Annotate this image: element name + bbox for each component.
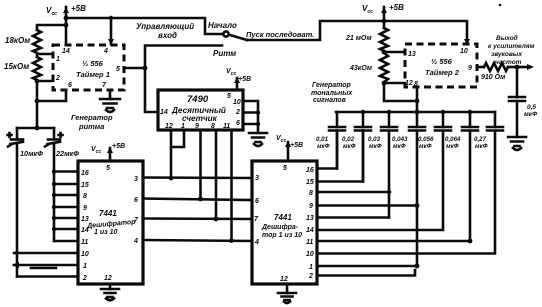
svg-text:8: 8 <box>83 193 87 200</box>
svg-text:10: 10 <box>81 251 89 258</box>
power symbol Vcc +5V (7490 supply) <box>226 68 251 90</box>
wire node E to pin 6 of timer 1 <box>37 90 66 101</box>
resistor R4 43 kOhm <box>349 53 388 82</box>
svg-text:1: 1 <box>56 56 60 63</box>
node output <box>515 65 520 70</box>
node dots on ground bus <box>256 110 260 114</box>
wire capacitor top rail <box>336 111 495 114</box>
IC U2 7490 decade counter <box>158 90 243 130</box>
svg-text:14: 14 <box>160 109 168 116</box>
svg-text:1 из 10: 1 из 10 <box>94 229 118 236</box>
svg-text:Генератор: Генератор <box>71 113 113 122</box>
node R3/R4 (discharge node) <box>382 50 387 55</box>
svg-text:Начало: Начало <box>208 21 237 30</box>
svg-text:11: 11 <box>306 239 313 246</box>
svg-text:мкФ: мкФ <box>343 143 356 150</box>
svg-text:7441: 7441 <box>99 209 117 218</box>
svg-text:4: 4 <box>133 238 138 245</box>
svg-text:6: 6 <box>255 198 259 205</box>
svg-text:18кОм: 18кОм <box>5 36 30 45</box>
wire C1 column corner to decoder output 2 <box>17 275 78 278</box>
svg-text:5: 5 <box>227 93 231 100</box>
capacitor C5 0.03uF <box>368 112 397 150</box>
wire timer 2 output pin 9 <box>477 66 484 69</box>
op-amp U1 1/2 556 Timer 1 (dashed block) <box>53 45 124 90</box>
svg-text:Пуск последоват.: Пуск последоват. <box>246 30 314 39</box>
node B (Vcc rail junction to resistor chain) <box>64 23 69 28</box>
svg-text:4: 4 <box>254 239 259 246</box>
svg-text:12: 12 <box>280 276 288 283</box>
node QD on bus D <box>229 238 234 243</box>
svg-text:Выход: Выход <box>496 34 518 42</box>
svg-text:8: 8 <box>211 123 215 130</box>
capacitor C7 0.056uF <box>418 112 451 150</box>
wire 7490 grounded pins 10,2,6 <box>243 101 258 133</box>
IC U3 7441 decoder 1-of-10 (left) <box>78 161 143 284</box>
svg-text:8: 8 <box>309 190 313 197</box>
capacitor C2 22uF electrolytic <box>45 128 79 158</box>
power symbol Vcc +5V (7441 no.2 supply) <box>276 135 303 161</box>
svg-text:13: 13 <box>81 216 89 223</box>
node QA on bus A <box>169 176 174 181</box>
wire decoder out 8 to capacitor C5 <box>317 191 389 194</box>
svg-text:7490: 7490 <box>187 94 209 105</box>
node on C8 column <box>468 239 473 244</box>
resistor R2 15 kOhm <box>4 57 41 80</box>
svg-text:2: 2 <box>235 109 240 116</box>
svg-text:Управляющий: Управляющий <box>136 22 194 31</box>
wire output arrow <box>517 66 530 69</box>
svg-text:Дешифра-: Дешифра- <box>261 224 299 231</box>
ground right of 7490 <box>249 133 267 146</box>
svg-text:+5В: +5В <box>290 142 303 149</box>
svg-text:2: 2 <box>55 75 60 82</box>
wire rhythm stub <box>145 46 222 69</box>
power symbol Vcc +5V (timer 2 supply) <box>362 3 404 28</box>
svg-text:9: 9 <box>309 203 313 210</box>
svg-text:3: 3 <box>255 175 259 182</box>
svg-text:+5В: +5В <box>389 3 404 12</box>
node threshold timer 2 <box>382 81 387 86</box>
svg-text:мкФ: мкФ <box>393 143 406 150</box>
svg-text:14: 14 <box>306 227 314 234</box>
svg-text:6: 6 <box>134 197 138 204</box>
wire QA pin 12 tie to input B pin 1 <box>171 130 184 147</box>
wire QD pin 11 down to bus D <box>230 130 233 241</box>
node on C6 column <box>415 203 420 208</box>
wire bus D (BCD bit D) <box>143 240 252 241</box>
node G (control line tap for pin 4) <box>109 16 113 20</box>
wire QA down to bus A <box>170 130 173 178</box>
svg-text:13: 13 <box>408 51 416 58</box>
op-amp U5 1/2 556 Timer 2 (dashed block) <box>405 44 477 88</box>
capacitor C10 0.5uF <box>509 67 538 137</box>
svg-text:4: 4 <box>103 48 108 55</box>
wire QB pin 9 down to bus B <box>199 130 202 199</box>
svg-text:мкФ: мкФ <box>317 143 330 150</box>
wire resistor to output node <box>508 66 517 69</box>
svg-text:0,043: 0,043 <box>392 136 408 143</box>
svg-text:9: 9 <box>195 123 199 130</box>
wire decoder out 16 to capacitor C3 <box>317 131 337 169</box>
svg-text:+5В: +5В <box>238 76 251 83</box>
capacitor C6 0.043uF <box>392 112 425 150</box>
svg-text:7441: 7441 <box>274 213 292 222</box>
power symbol Vcc +5V (timer 1 supply) <box>46 4 86 45</box>
svg-text:0,01: 0,01 <box>316 136 329 143</box>
capacitor C3 0.01uF <box>316 112 345 169</box>
svg-text:тор 1 из 10: тор 1 из 10 <box>262 232 302 239</box>
svg-text:2: 2 <box>308 273 313 280</box>
wire decoder out 13 to C5 column <box>317 216 389 219</box>
wire C2 bottom down to decoder pins <box>53 143 56 241</box>
svg-text:мкФ: мкФ <box>369 143 382 150</box>
pin 4 arrowhead <box>108 39 114 45</box>
svg-text:10: 10 <box>460 48 468 55</box>
wires C2 node to decoder outputs 16,15,8,9,13,14,11 <box>54 172 78 242</box>
node F (cap rail junction) <box>35 126 40 131</box>
wire bus C (BCD bit C) <box>143 217 252 220</box>
svg-text:0,064: 0,064 <box>445 136 461 143</box>
wire Vcc to resistor chain R1 <box>37 25 66 30</box>
ground below C10 <box>508 137 526 150</box>
wire decoder out 15 to capacitor C4 <box>317 131 363 182</box>
svg-text:5: 5 <box>283 165 287 172</box>
svg-text:Ритм: Ритм <box>213 49 236 58</box>
svg-text:1: 1 <box>83 263 87 270</box>
resistor R3 2.1 MOhm <box>345 28 388 51</box>
node D (threshold node) <box>35 79 40 84</box>
wire bus B (BCD bit B) <box>143 199 252 201</box>
svg-text:6: 6 <box>68 82 72 89</box>
wire to timer 2 pin 13 <box>384 51 405 54</box>
svg-text:15: 15 <box>81 182 89 189</box>
svg-text:Генератор: Генератор <box>312 82 352 89</box>
svg-text:0,27: 0,27 <box>474 136 487 143</box>
svg-text:0,02: 0,02 <box>342 136 355 143</box>
capacitor C1 10uF electrolytic <box>8 128 44 158</box>
wire threshold node to trigger column <box>384 83 417 101</box>
node rail taps <box>361 110 365 114</box>
svg-text:15: 15 <box>306 179 314 186</box>
wire QC pin 8 down to bus C <box>215 130 218 219</box>
wire node D down to capacitor junction <box>36 81 39 128</box>
svg-text:13: 13 <box>306 215 314 222</box>
svg-text:8: 8 <box>414 81 418 88</box>
IC U4 7441 decoder 1-of-10 (right) <box>252 161 317 284</box>
svg-text:43кОм: 43кОм <box>349 65 373 72</box>
power symbol Vcc +5V (7441 no.1 supply) <box>91 143 125 161</box>
wire decoder out 14 to capacitor C8 <box>317 131 470 241</box>
node on C1 column <box>15 251 19 255</box>
svg-text:11: 11 <box>223 123 230 130</box>
node A (Vcc rail junction to control line) <box>64 16 69 21</box>
wire sequence-start line to timer 2 reset <box>247 21 467 44</box>
svg-text:14: 14 <box>81 227 89 234</box>
svg-text:счетчик: счетчик <box>182 114 218 123</box>
ground below 7441 no.1 pin 12 <box>101 284 119 300</box>
wire capacitor rail left <box>17 127 54 130</box>
node H (output node) <box>143 66 148 71</box>
svg-text:6: 6 <box>236 120 240 127</box>
svg-text:мкФ: мкФ <box>475 143 488 150</box>
wire C1 bottom down left side <box>16 143 19 277</box>
svg-text:ритма: ритма <box>78 122 104 131</box>
wire node D to pin 2 of timer 1 <box>37 80 53 83</box>
capacitor C9 0.27uF <box>474 112 503 150</box>
capacitor C8 0.064uF <box>445 112 478 150</box>
wire bus A (BCD bit A) <box>143 176 252 179</box>
svg-text:мкФ: мкФ <box>446 143 459 150</box>
wire reset pin 4 from control line <box>110 18 113 44</box>
node out 8 on C5 column <box>387 190 392 195</box>
svg-text:+5В: +5В <box>112 143 125 150</box>
node QC on bus C <box>214 217 219 222</box>
svg-text:5: 5 <box>106 165 110 172</box>
svg-text:11: 11 <box>81 239 88 246</box>
svg-text:тональных: тональных <box>311 90 353 97</box>
wire decoder out 10 to C6 column <box>317 265 417 268</box>
svg-text:Таймер 2: Таймер 2 <box>425 68 460 77</box>
svg-text:910 Ом: 910 Ом <box>481 74 506 81</box>
svg-text:12: 12 <box>405 80 413 87</box>
svg-text:9: 9 <box>83 205 87 212</box>
svg-text:14: 14 <box>62 48 70 55</box>
wire decoder out 9 to capacitor C6 <box>317 204 417 207</box>
node E (trigger tap) <box>35 99 40 104</box>
stray scan speck <box>499 4 502 7</box>
svg-text:0,5: 0,5 <box>527 104 536 111</box>
wire to timer 2 pin 12 <box>384 82 405 85</box>
node QB on bus B <box>198 197 203 202</box>
wire control-input line to switch <box>66 18 222 34</box>
wire C5 column <box>388 131 391 218</box>
svg-text:10: 10 <box>233 99 241 106</box>
svg-text:10мкФ: 10мкФ <box>20 149 43 158</box>
wire timer 2 pin 8 down to cap rail <box>416 87 419 112</box>
ground below timer 1 pin 7 <box>100 90 120 112</box>
junction dots on C2 column <box>52 169 56 173</box>
wire timer 1 output pin 5 <box>124 67 145 70</box>
svg-text:к усилителям: к усилителям <box>488 43 535 50</box>
svg-text:мкФ: мкФ <box>524 111 538 118</box>
wire decoder out 13 to capacitor C7 <box>317 131 443 230</box>
stray scan mark <box>31 267 56 270</box>
svg-text:5: 5 <box>116 66 120 73</box>
wire output to 7490 clock pin 14 <box>145 68 158 112</box>
svg-text:3: 3 <box>134 176 138 183</box>
svg-text:16: 16 <box>306 167 314 174</box>
resistor R1 18 kOhm <box>5 30 41 53</box>
svg-text:12: 12 <box>104 275 112 282</box>
resistor R5 910 Ohm <box>481 63 508 81</box>
node trigger/threshold tie <box>415 99 420 104</box>
svg-text:½ 556: ½ 556 <box>431 57 453 66</box>
svg-text:частот: частот <box>495 59 522 66</box>
node C (+5V crossing dot on reset line) <box>382 19 387 24</box>
svg-text:16: 16 <box>81 170 89 177</box>
wire decoder out 11 to capacitor C9 <box>317 131 495 254</box>
wire to decoder output 1 with arrow <box>14 264 78 267</box>
svg-text:звуковых: звуковых <box>491 51 522 58</box>
svg-text:9: 9 <box>468 65 472 72</box>
svg-text:21 мОм: 21 мОм <box>345 35 372 42</box>
svg-text:2: 2 <box>82 275 87 282</box>
wire decoder out 1 stub <box>317 270 415 276</box>
capacitor C4 0.02uF <box>342 112 371 182</box>
svg-text:вход: вход <box>158 31 177 40</box>
ground below 7441 no.2 pin 12 <box>278 284 296 303</box>
svg-text:0,056: 0,056 <box>418 136 434 143</box>
node out 10 on C6 column <box>415 264 420 269</box>
svg-text:22мкФ: 22мкФ <box>55 149 79 158</box>
pin 10 arrowhead into timer 2 <box>464 39 470 45</box>
wire R1 to discharge pin 1 of timer 1 <box>37 53 53 57</box>
switch "Start" <box>208 21 247 40</box>
svg-text:мкФ: мкФ <box>419 143 432 150</box>
svg-text:10: 10 <box>306 251 314 258</box>
svg-text:сигналов: сигналов <box>313 97 347 104</box>
svg-text:Таймер 1: Таймер 1 <box>76 70 110 79</box>
svg-text:½ 556: ½ 556 <box>82 59 104 68</box>
svg-text:15кОм: 15кОм <box>4 62 29 71</box>
svg-text:0,03: 0,03 <box>368 136 381 143</box>
svg-text:+5В: +5В <box>71 4 86 13</box>
wire C1 node to decoder output 10 <box>14 252 78 255</box>
wire C6 column lower section <box>416 131 419 266</box>
svg-text:1: 1 <box>309 264 313 271</box>
